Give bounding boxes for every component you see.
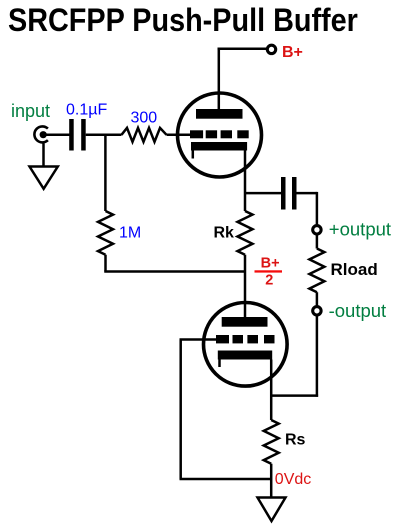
svg-text:-output: -output [329,300,387,321]
svg-text:Rload: Rload [331,260,378,279]
svg-text:1M: 1M [119,225,141,242]
svg-text:300: 300 [131,109,158,126]
svg-text:0Vdc: 0Vdc [275,471,311,488]
svg-text:SRCFPP Push-Pull Buffer: SRCFPP Push-Pull Buffer [8,3,358,39]
svg-text:0.1µF: 0.1µF [66,102,107,119]
svg-text:B+: B+ [282,44,303,61]
svg-text:+output: +output [329,219,391,240]
svg-text:input: input [11,101,50,121]
svg-text:Rs: Rs [285,432,306,449]
svg-text:Rk: Rk [214,224,235,241]
svg-text:2: 2 [265,273,273,289]
svg-text:B+: B+ [261,256,280,272]
